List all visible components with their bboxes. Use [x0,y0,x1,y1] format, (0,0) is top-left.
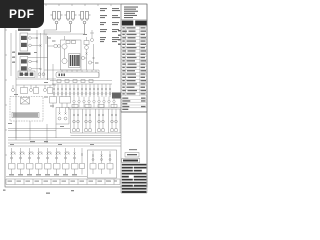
title block logo box [125,153,139,158]
wire: manifold header line [52,83,112,85]
instrument stub near notes [90,30,94,42]
control box with X pattern [21,98,30,105]
wire: double header line [68,108,121,110]
manifold M2 bottoms circles row [73,97,115,108]
manifold valve drops row [54,84,110,97]
wire: vertical line left riser [15,30,17,140]
PDF badge overlay [0,0,44,28]
sheet border frame [5,4,147,187]
unit labels row [9,174,77,175]
valve V5 and instrument on riser x93.5 [88,44,94,70]
distribution unit D7 [63,148,70,174]
small labels under collectors [30,141,48,142]
title block header row [122,159,140,163]
panel with indicator cells [18,71,35,78]
junction block right of manifold [112,93,121,99]
unit group G2 boxes [50,97,71,109]
heat exchanger E2 [20,57,28,75]
distribution unit D3 [27,148,34,174]
small pump row under exchangers [12,79,57,94]
filter unit F1 [51,12,63,31]
wire: collector lines from filters [44,30,85,44]
tie-in arrows into legend column [118,30,121,45]
pump skid frame U1 [61,36,82,70]
instrument circles I1 I2 [48,44,61,48]
distribution bays with valves [71,109,122,136]
distribution unit D6 [54,148,61,174]
heat exchanger E1 top band [18,29,31,31]
manifold header small boxes [57,80,93,83]
skid S2 frame bottom [88,150,117,178]
legend sparse rows [122,98,145,111]
wire: main collectors [8,121,121,146]
distribution unit D9 [90,151,96,174]
vessel stubs [44,70,112,81]
legend row divider lines [121,27,147,96]
distribution unit D1 [9,148,16,174]
title block stamp text [129,149,137,150]
bottom margin marks [3,190,74,194]
instrument circles after panel [38,73,45,76]
distribution unit D11 [107,151,113,174]
tank T1 with internals [69,54,81,68]
distribution unit D10 [99,151,105,174]
scattered equipment tag labels [8,34,117,182]
border zone ticks left [5,30,7,155]
border zone ticks top [20,4,111,6]
legend rows [122,27,146,94]
unit group G2 frame with drops [56,108,69,125]
louver strip [12,113,39,118]
distribution unit D2 [18,148,25,174]
schedule strip cells [6,177,120,185]
node labels on left riser [13,52,16,63]
pump P3 top right [81,37,89,70]
filter unit F2 [65,12,77,33]
distribution unit D8b [80,148,85,175]
distribution unit D5 [45,148,52,174]
legend header dark cells [122,21,147,26]
wire: risers next to exchangers [28,30,53,85]
header small boxes row2 [72,105,117,108]
valve crosses on risers [36,37,42,70]
heat exchanger E1 [11,33,28,76]
distribution unit D4 [36,148,43,174]
legend table column frame [121,4,147,193]
title block dense rows [122,164,147,193]
heat exchanger E2 top band [18,53,31,55]
filter unit F3 [79,12,91,35]
notes text block top right [100,8,120,42]
skid S1 dashed frame [10,97,43,122]
vessel V1 horizontal [56,72,99,78]
distribution unit D8 [72,148,79,174]
legend notes text [124,7,138,19]
